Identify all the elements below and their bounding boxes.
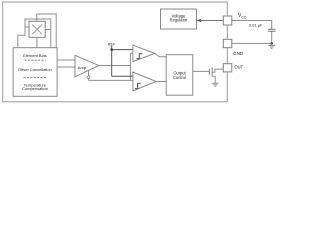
svg-text:REF: REF [108, 41, 116, 46]
svg-text:OUT: OUT [235, 65, 244, 70]
svg-text:VCC: VCC [238, 13, 247, 19]
svg-text:GND: GND [233, 51, 244, 56]
svg-text:0.01 µF: 0.01 µF [249, 23, 263, 28]
svg-text:Control: Control [173, 75, 186, 80]
svg-text:Amp: Amp [78, 65, 87, 70]
svg-text:Offset Cancellation: Offset Cancellation [18, 67, 52, 72]
svg-text:Regulator: Regulator [170, 18, 188, 23]
svg-text:Compensation: Compensation [22, 86, 48, 91]
svg-text:Element Bias: Element Bias [23, 53, 47, 58]
